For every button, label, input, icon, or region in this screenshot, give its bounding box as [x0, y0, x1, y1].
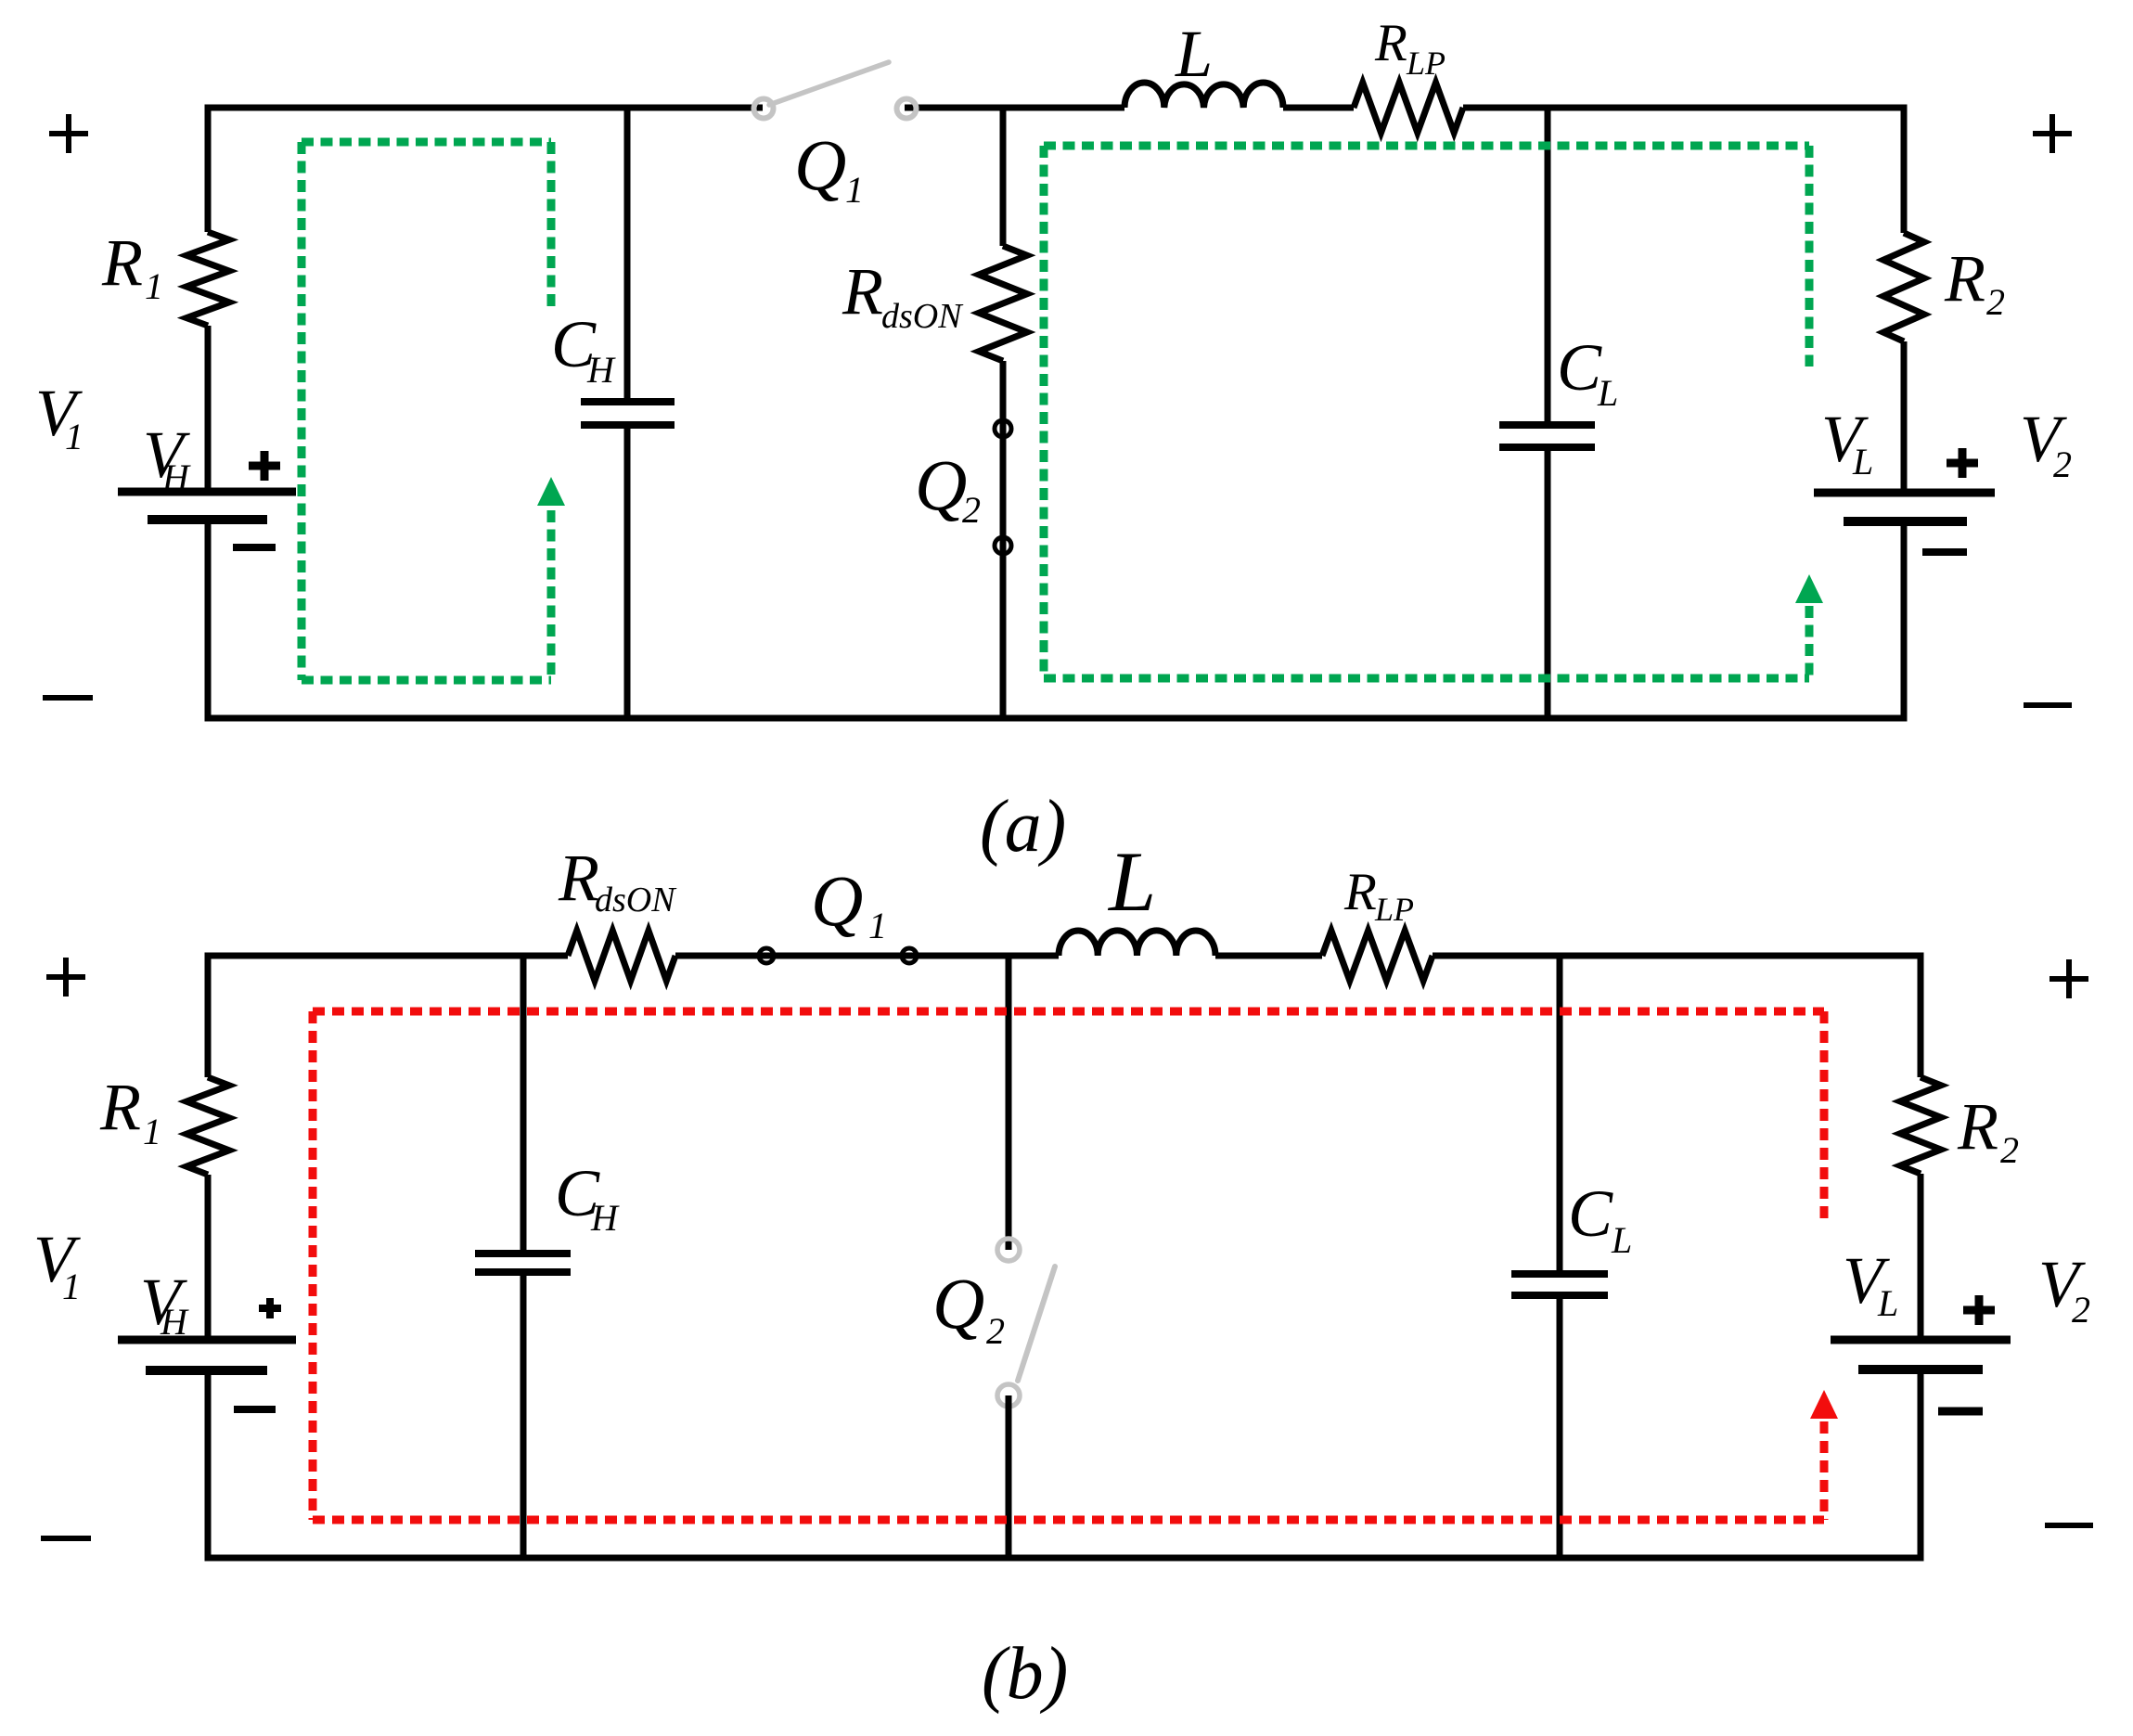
wire: CH branch lower (fig b): [520, 1272, 527, 1558]
current loop 2 arrow (green, up): [1795, 574, 1823, 603]
battery VH + sign: [249, 462, 280, 470]
wire: fig(a) top segment RLP-to-corner: [1463, 105, 1904, 111]
resistor R1: [186, 232, 229, 326]
svg-text:H: H: [161, 457, 191, 498]
svg-text:2: 2: [2053, 444, 2072, 485]
inductor L (fig a): [1124, 83, 1283, 108]
switch Q2 bottom contact (fig b): [997, 1384, 1020, 1407]
switch Q2 bottom contact: [995, 537, 1011, 554]
wire: mid branch upper (fig b): [1006, 956, 1012, 1250]
capacitor CL (fig a): [1499, 421, 1595, 429]
svg-text:H: H: [590, 1197, 620, 1239]
svg-text:Q: Q: [915, 444, 967, 525]
wire: fig(b) top-left segment: [208, 953, 568, 959]
svg-text:L: L: [1175, 17, 1213, 91]
svg-text:1: 1: [65, 416, 84, 457]
battery VL - sign (fig a): [1922, 548, 1967, 556]
switch Q1 right contact (fig b): [902, 948, 917, 963]
terminal - (fig b bottom-left): [41, 1536, 91, 1541]
svg-text:R: R: [99, 1070, 141, 1144]
svg-text:H: H: [586, 349, 616, 391]
wire: fig(a) left rail below battery: [205, 520, 212, 722]
svg-text:R: R: [101, 225, 143, 300]
svg-text:C: C: [1568, 1177, 1613, 1251]
switch Q2 closed wire: [1000, 420, 1007, 554]
wire: fig(b) left rail below battery: [205, 1370, 212, 1562]
switch Q1 right contact: [897, 99, 917, 119]
terminal - (fig b bottom-right): [2045, 1523, 2093, 1528]
svg-text:R: R: [1343, 863, 1377, 921]
svg-text:LP: LP: [1406, 45, 1446, 82]
wire: fig(a) left rail lower: [205, 326, 212, 492]
battery VH plate- (fig b): [146, 1366, 267, 1375]
terminal + (fig a top-left): [49, 131, 88, 136]
inductor L (fig b): [1059, 931, 1215, 956]
wire: CL branch upper (fig a): [1545, 108, 1551, 425]
wire: fig(b) left rail lower: [205, 1175, 212, 1340]
battery VL plate- (fig b): [1858, 1365, 1983, 1374]
svg-text:C: C: [1557, 330, 1602, 405]
wire: fig(b) right rail upper: [1918, 953, 1924, 1078]
wire: fig(a) top segment Q1-to-L: [905, 105, 1124, 111]
svg-text:R: R: [1944, 241, 1985, 315]
terminal - (fig a bottom-right): [2024, 702, 2072, 708]
switch Q1 blade: [769, 62, 889, 105]
wire: mid branch upper: [1000, 108, 1007, 246]
resistor R1 (fig b): [186, 1077, 229, 1175]
battery VH - sign (fig b): [234, 1406, 276, 1413]
svg-text:2: 2: [962, 489, 981, 531]
battery VL plate+ (fig b): [1831, 1336, 2011, 1344]
svg-text:1: 1: [145, 265, 163, 307]
battery VL + sign (fig a): [1947, 459, 1978, 468]
switch Q1 closed wire (fig b): [675, 953, 909, 959]
svg-text:1: 1: [845, 169, 864, 211]
wire: fig(b) top segment RdsON-to-L: [675, 953, 1059, 959]
wire: CL branch upper (fig b): [1557, 956, 1563, 1274]
terminal + (fig b top-left): [46, 974, 85, 980]
wire: fig(a) top segment L-to-RLP: [1283, 105, 1354, 111]
svg-text:dsON: dsON: [881, 297, 964, 336]
wire: fig(a) right rail mid: [1901, 341, 1908, 493]
capacitor CH (fig b): [475, 1250, 571, 1257]
current loop 2 (green dashed, right): [1044, 142, 1809, 150]
wire: mid branch lower: [1000, 554, 1007, 718]
svg-text:L: L: [1877, 1282, 1898, 1324]
resistor RLP (fig a): [1354, 83, 1463, 133]
svg-text:(a): (a): [980, 786, 1066, 868]
svg-text:Q: Q: [794, 124, 846, 205]
current loop 3 arrow (red, up): [1810, 1390, 1838, 1419]
svg-text:2: 2: [1986, 281, 2005, 323]
svg-text:L: L: [1852, 441, 1873, 482]
battery VH plate+ (fig b): [118, 1336, 296, 1344]
capacitor CL (fig b): [1511, 1270, 1608, 1278]
terminal - (fig a bottom-left): [43, 695, 93, 701]
battery VL + sign (fig b): [1963, 1306, 1995, 1315]
wire: fig(a) left rail upper: [205, 105, 212, 233]
svg-text:Q: Q: [811, 860, 863, 941]
switch Q2 blade (fig b): [1018, 1267, 1055, 1381]
svg-text:(b): (b): [982, 1633, 1068, 1715]
resistor RLP (fig b): [1322, 931, 1433, 981]
battery VH plate-: [148, 515, 267, 524]
svg-text:dsON: dsON: [595, 881, 677, 919]
resistor R2 (fig a): [1883, 233, 1924, 341]
wire: fig(b) top segment RLP-to-corner: [1433, 953, 1921, 959]
switch Q1 left contact: [754, 99, 774, 119]
resistor RdsON (fig b): [568, 931, 675, 981]
wire: fig(a) bottom rail: [208, 715, 1904, 722]
wire: fig(b) left rail upper: [205, 953, 212, 1078]
switch Q2 top contact: [995, 420, 1011, 437]
wire: CH branch lower: [624, 425, 631, 718]
svg-text:R: R: [1374, 14, 1407, 72]
svg-text:H: H: [160, 1301, 189, 1343]
battery VL plate+ (fig a): [1814, 489, 1995, 497]
wire: CL branch lower (fig b): [1557, 1295, 1563, 1558]
battery VH - sign: [233, 544, 276, 551]
wire: fig(b) top segment L-to-RLP: [1215, 953, 1322, 959]
current loop 1 arrow (green, up): [537, 477, 565, 506]
svg-text:1: 1: [143, 1111, 161, 1152]
svg-text:L: L: [1107, 834, 1156, 929]
wire: mid branch lower (fig b): [1006, 1395, 1012, 1558]
switch Q1 left contact (fig b): [759, 948, 774, 963]
resistor RdsON (fig a): [979, 246, 1027, 361]
wire: CH branch upper (fig b): [520, 956, 527, 1254]
wire: fig(b) right rail mid: [1918, 1174, 1924, 1340]
switch Q2 top contact (fig b): [997, 1239, 1020, 1261]
battery VH + sign (fig b): [259, 1305, 281, 1312]
wire: fig(a) right rail below battery: [1901, 521, 1908, 722]
svg-text:1: 1: [62, 1266, 81, 1307]
svg-text:2: 2: [2072, 1289, 2090, 1331]
battery VL - sign (fig b): [1938, 1408, 1983, 1416]
svg-text:1: 1: [868, 905, 887, 946]
svg-text:L: L: [1611, 1219, 1632, 1261]
svg-text:L: L: [1597, 372, 1618, 414]
wire: CL branch lower (fig a): [1545, 447, 1551, 718]
svg-text:2: 2: [986, 1310, 1005, 1352]
svg-text:2: 2: [2000, 1129, 2019, 1171]
capacitor CH: [581, 398, 675, 405]
wire: fig(b) bottom rail: [208, 1555, 1921, 1562]
terminal + (fig b top-right): [2049, 976, 2088, 982]
terminal + (fig a top-right): [2033, 131, 2072, 136]
svg-text:R: R: [1957, 1089, 1998, 1164]
svg-text:Q: Q: [932, 1263, 984, 1344]
svg-text:LP: LP: [1374, 891, 1414, 928]
current loop 1 (green dashed, left): [302, 138, 551, 147]
wire: mid branch between RdsON and Q2: [1000, 361, 1007, 420]
wire: fig(a) top-left segment: [208, 105, 763, 111]
svg-text:R: R: [558, 841, 599, 915]
wire: CH branch upper: [624, 108, 631, 402]
current loop 3 (red dashed): [313, 1008, 1824, 1016]
svg-text:R: R: [842, 254, 883, 328]
wire: fig(a) right rail upper: [1901, 105, 1908, 234]
battery VL plate- (fig a): [1844, 517, 1967, 526]
wire: fig(b) right rail below battery: [1918, 1370, 1924, 1562]
battery VH plate+: [118, 488, 296, 496]
resistor R2 (fig b): [1900, 1077, 1941, 1174]
